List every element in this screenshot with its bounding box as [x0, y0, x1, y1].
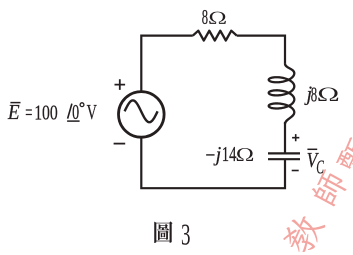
caption: figure CJK character tu: [154, 221, 172, 243]
wire: bottom loop (right-lower, bottom, left-lower): [141, 137, 285, 188]
svg-text:14: 14: [222, 142, 237, 166]
svg-text:−: −: [205, 143, 215, 167]
source polarity minus sign: [114, 143, 126, 145]
svg-text:100: 100: [34, 101, 58, 125]
svg-text:8: 8: [202, 5, 208, 29]
source polarity plus sign: [115, 79, 126, 90]
AC source E circle: [119, 92, 165, 138]
wire: top-right horizontal segment: [237, 36, 285, 64]
svg-text:=: =: [25, 100, 32, 124]
svg-text:3: 3: [181, 217, 191, 251]
watermark char zhen (partial, clipped at edge): [335, 134, 353, 177]
label: degree symbol: [80, 103, 84, 107]
svg-text:0: 0: [72, 100, 79, 124]
svg-text:8: 8: [311, 83, 317, 107]
svg-text:C: C: [316, 156, 324, 178]
capacitor C -j14-ohm top plate: [268, 152, 300, 154]
wire: left vertical upper + top-left horizontal: [141, 36, 193, 92]
AC source sine wave: [125, 100, 158, 122]
watermark char shi: [309, 168, 350, 208]
capacitor polarity plus sign: [292, 134, 299, 141]
svg-text:E: E: [7, 100, 20, 124]
wire: right vertical between inductor and capacitor: [284, 122, 286, 153]
watermark char jiao (teacher stamp): [279, 210, 326, 255]
resistor R 8-ohm zigzag: [193, 31, 237, 41]
inductor L j8-ohm coil: [269, 64, 295, 124]
label: phasor angle slash: [68, 104, 72, 119]
capacitor C bottom plate: [268, 158, 300, 160]
capacitor polarity minus sign: [292, 170, 299, 172]
svg-text:V: V: [87, 100, 98, 124]
